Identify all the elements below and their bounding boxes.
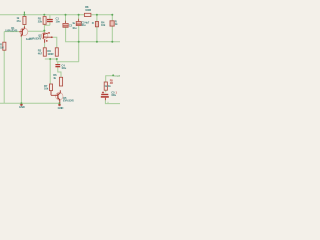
red text near output label <box>110 79 118 94</box>
C2 top pin red segment <box>65 21 67 24</box>
wire C2 top stub <box>65 15 67 24</box>
wire C2 bottom to bus corner <box>66 27 120 42</box>
svg-text:4R: 4R <box>110 82 113 85</box>
wire W1 to lower node <box>56 59 58 62</box>
node output label anchor <box>112 74 114 76</box>
wire feedback horizontal y62 <box>57 61 79 63</box>
svg-text:100R: 100R <box>47 52 53 56</box>
wire input vertical down to R2 <box>3 32 5 43</box>
transistor Q1 <box>19 26 28 36</box>
wire R5-C1 parallel bottom join <box>45 22 50 25</box>
svg-text:100u: 100u <box>61 67 66 70</box>
svg-text:10u: 10u <box>81 23 86 27</box>
C5 bottom red stub <box>104 98 106 101</box>
wire R5 bottom to junction B <box>43 24 45 30</box>
wire R1 top stub <box>23 15 25 17</box>
resistor R8 (series in rail) <box>84 13 91 16</box>
node W1-R4 <box>56 58 58 60</box>
resistor R4 <box>55 48 58 56</box>
svg-text:10n: 10n <box>56 20 61 24</box>
wire top power rail left segment <box>0 14 84 16</box>
node ground rail GND1 <box>20 102 22 104</box>
svg-text:1u: 1u <box>72 21 75 25</box>
wire Q1 emitter down to ground rail <box>20 36 22 103</box>
tiny stub near output corner <box>107 102 109 104</box>
C3 top pin red segment <box>78 19 80 22</box>
node bus-Ra <box>96 41 98 43</box>
capacitor C1 <box>47 19 53 22</box>
wire top power rail right segment <box>91 14 112 16</box>
node bus-Rb <box>111 41 113 43</box>
node W1-x50 <box>49 58 51 60</box>
svg-text:10k: 10k <box>44 87 49 91</box>
wire Ra column <box>96 15 98 42</box>
wire Q2 lower pin to R3 <box>44 43 46 48</box>
node rail-C3 <box>78 14 80 16</box>
wire C1 top stub <box>49 15 51 19</box>
Q2 pin number marks <box>46 32 50 41</box>
wire output label elbow <box>106 76 113 82</box>
svg-text:R: R <box>92 21 94 25</box>
svg-text:100R: 100R <box>85 8 91 12</box>
wire junction B into Q2 <box>43 31 45 33</box>
svg-text:GND: GND <box>19 105 25 109</box>
svg-text:10u: 10u <box>72 26 77 30</box>
svg-text:B_NPN_BC547B: B_NPN_BC547B <box>5 29 17 32</box>
resistor R3 <box>43 48 46 56</box>
text labels (teal field text blobs) <box>0 5 118 110</box>
node ground rail Q3 emitter <box>59 102 61 104</box>
svg-text:OUT: OUT <box>114 74 120 78</box>
node junction B <box>43 30 45 32</box>
wire input node A horizontal to Q1 base <box>4 31 19 33</box>
capacitor C2 <box>63 23 68 27</box>
power symbol VCC tick <box>23 12 25 14</box>
transistor Q2 <box>41 33 53 43</box>
wire C3 bottom through bus down to feedback line <box>78 26 80 62</box>
resistor R2 <box>3 42 6 50</box>
wire R9 bottom stub <box>105 90 107 92</box>
node rail-C2 <box>65 14 67 16</box>
resistor Rb (top right 2) <box>110 21 114 26</box>
wire Q2 emitter elbow to R4 <box>53 37 57 48</box>
resistor R9 (output) <box>104 82 107 90</box>
svg-text:B_NPN_BC547B: B_NPN_BC547B <box>30 37 42 40</box>
capacitor C4 <box>55 64 60 67</box>
node rail-Ra <box>96 14 98 16</box>
ground symbol GND2 (Q3 emitter) <box>58 104 61 106</box>
wire C4 top stub <box>57 62 59 64</box>
wire C4 bottom to R6 <box>58 67 61 77</box>
ground symbol GND1 <box>20 104 23 106</box>
resistor R6 <box>59 77 62 86</box>
wire R2 bottom to bottom rail <box>3 50 5 103</box>
wire R1 to Q1 collector <box>23 25 25 27</box>
wire column x50 down to R7 <box>49 59 51 84</box>
junction dots <box>20 14 114 105</box>
svg-text:10k: 10k <box>101 23 106 27</box>
svg-text:47u: 47u <box>16 19 21 23</box>
wire C3 top stub <box>78 15 80 22</box>
transistor Q3 <box>51 90 63 103</box>
wire W1 R3/R4 bottoms <box>45 58 57 60</box>
node bus-C3 <box>78 41 80 43</box>
C5 plus mark <box>102 91 104 93</box>
resistor R5 (top middle) <box>43 17 46 25</box>
node rail-R1 <box>23 14 25 16</box>
wire C5 bottom to bottom right rail <box>105 100 120 104</box>
node rail-R5C1 <box>43 14 45 16</box>
svg-text:GND: GND <box>58 106 64 110</box>
svg-text:4k7: 4k7 <box>38 51 43 55</box>
wire bottom ground rail left <box>0 102 60 104</box>
wire Rb column <box>111 15 113 42</box>
svg-text:B_NPN_BC547B: B_NPN_BC547B <box>63 100 74 103</box>
resistor R1 <box>23 16 26 24</box>
wire Q1 collector node to junction B <box>28 30 44 32</box>
capacitor C3 <box>76 22 81 26</box>
resistor R7 <box>50 84 53 91</box>
svg-text:22k: 22k <box>38 20 43 24</box>
node rail-Rb <box>111 14 113 16</box>
resistor Ra (top right 1) <box>95 22 98 27</box>
capacitor C5 (output electrolytic) <box>101 94 109 98</box>
